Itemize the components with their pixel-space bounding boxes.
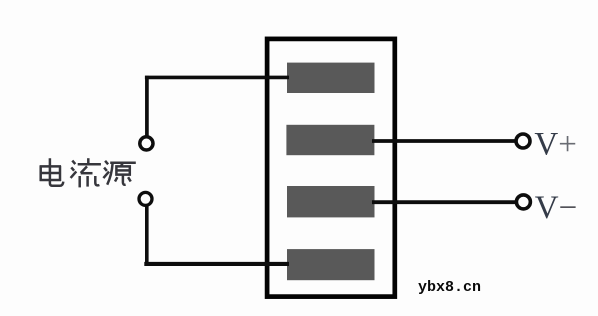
wire: V- sense lead bbox=[372, 200, 515, 204]
svg-text:V+: V+ bbox=[534, 127, 576, 163]
electrode contact 1 (top) bbox=[287, 63, 375, 93]
svg-text:V−: V− bbox=[535, 190, 577, 226]
terminal: current source - bbox=[139, 192, 152, 205]
wire: V+ sense lead bbox=[372, 139, 515, 143]
char 流 bbox=[71, 158, 101, 187]
electrode contact 3 bbox=[287, 186, 375, 217]
wire: current source left vertical (bottom) bbox=[145, 206, 149, 264]
char 源 bbox=[103, 161, 135, 185]
svg-text:ybx8.cn: ybx8.cn bbox=[418, 279, 481, 296]
electrode contact 4 (bottom) bbox=[287, 249, 375, 280]
terminal V+ bbox=[516, 134, 530, 148]
wire: current source bottom horizontal bbox=[144, 262, 289, 266]
wire: current source left vertical (top) bbox=[145, 76, 149, 136]
device outline box bbox=[267, 39, 395, 297]
wire: current source top horizontal bbox=[145, 76, 289, 80]
char 电 bbox=[40, 158, 64, 186]
terminal V- bbox=[516, 195, 530, 209]
terminal: current source + bbox=[140, 137, 153, 150]
label: 电流源 (current source) drawn as strokes bbox=[40, 158, 136, 187]
electrode contact 2 bbox=[286, 125, 374, 155]
